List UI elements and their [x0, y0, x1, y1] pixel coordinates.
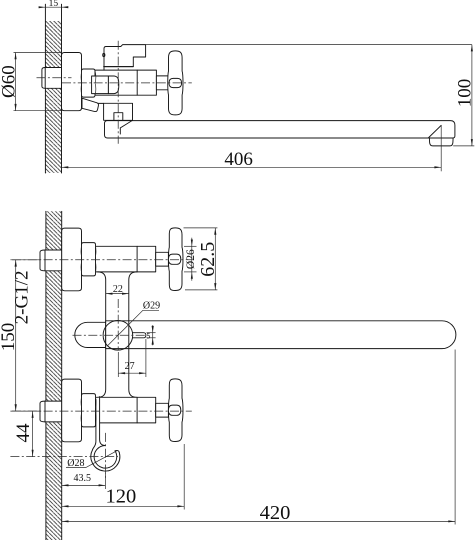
dimension 100 (height): [123, 44, 472, 46]
valve axis centerline (top view): [62, 82, 192, 84]
leader ø28: [66, 451, 117, 468]
nut facets (top view): [81, 72, 96, 95]
svg-text:150: 150: [0, 323, 19, 352]
wall section hatch (front view): [46, 211, 62, 540]
dimension 120: [183, 444, 185, 510]
dimension 406 (spout reach): [62, 166, 442, 168]
spout centerline (front view): [73, 334, 150, 336]
upper inlet pipe (front view): [40, 250, 62, 271]
eccentric inlet pipe (top view): [42, 68, 62, 89]
svg-text:43.5: 43.5: [73, 473, 91, 484]
dimension 15 (wall thickness): [39, 6, 67, 8]
valve cylinder and stem (top view): [95, 70, 156, 95]
hook horizontal centerline (front view): [10, 456, 118, 458]
hook vertical centerline (front view): [104, 433, 106, 480]
spout inner edge right (top view): [428, 125, 441, 138]
handle hub (top view): [169, 78, 182, 87]
dimension 420: [454, 350, 456, 525]
svg-text:406: 406: [224, 149, 253, 170]
dimension 22 (tube width): [106, 293, 129, 295]
svg-text:44: 44: [13, 423, 34, 443]
svg-text:2-G1/2: 2-G1/2: [12, 270, 33, 324]
dimension ø60 (flange): [14, 52, 62, 54]
pipe cap edge (top view): [44, 68, 46, 89]
cross handle (top view): [168, 51, 183, 115]
dimension 62.5 (handle): [184, 227, 218, 229]
bell tab (top view): [114, 113, 123, 121]
svg-text:15: 15: [49, 0, 59, 9]
handle neck (top view): [156, 76, 168, 90]
svg-text:Ø26: Ø26: [185, 249, 197, 269]
lower valve centerline (front view): [12, 410, 192, 412]
dimension 150: [10, 259, 40, 261]
svg-text:Ø60: Ø60: [0, 65, 19, 98]
svg-text:120: 120: [106, 486, 137, 508]
hex nut (top view): [82, 69, 96, 97]
upper valve centerline (front view): [12, 259, 192, 261]
spout pivot centerline (top view): [117, 41, 119, 144]
dimension 43.5: [104, 473, 106, 489]
pivot vertical centerline (front view): [117, 299, 119, 350]
leader ø29: [107, 310, 159, 346]
svg-text:22: 22: [113, 284, 123, 295]
svg-text:Ø28: Ø28: [67, 458, 84, 469]
spout nozzle (top view): [429, 138, 453, 146]
shower hose hook ring ø28 (front view): [91, 450, 120, 471]
svg-text:100: 100: [454, 79, 475, 108]
upper valve assembly (front view): [62, 228, 82, 291]
body tube (front view): [98, 272, 106, 398]
wall edges (top view): [44, 4, 46, 173]
svg-text:62.5: 62.5: [197, 242, 219, 277]
svg-text:420: 420: [260, 502, 291, 524]
pipe centerline (top view): [37, 77, 72, 79]
diverter lever (top view): [82, 98, 99, 111]
cylinder/stem divider (top view): [136, 70, 138, 95]
wall section hatch (top view): [45, 21, 61, 173]
pivot housing bulge (top view): [108, 76, 118, 94]
cartridge sleeve (top view): [92, 76, 109, 94]
lower inlet pipe (front view): [40, 401, 62, 422]
spout bell block (top view): [104, 103, 133, 120]
spout tube (top view): [105, 121, 455, 138]
lower valve assembly (front view): [62, 379, 82, 442]
bonnet block (top view): [104, 45, 146, 71]
spout left cap (front view): [75, 322, 106, 347]
pivot circle ø29 (front view): [103, 321, 133, 351]
pivot slot (front view): [133, 333, 146, 338]
dimension ø26 (stem): [184, 245, 197, 247]
spout inner edge left (top view): [120, 120, 132, 134]
wall edges (front view): [45, 211, 47, 540]
dimension 44: [32, 411, 34, 457]
svg-text:Ø29: Ø29: [143, 300, 160, 311]
svg-text:5: 5: [146, 331, 150, 340]
flange escutcheon (top view): [62, 53, 82, 111]
dimension 27: [117, 352, 119, 377]
set screw (top view): [103, 53, 105, 56]
spout tube (front view): [106, 321, 456, 349]
svg-text:27: 27: [125, 361, 135, 372]
dimension 5 (slot): [147, 332, 156, 334]
shower hose hook arm (front view): [96, 397, 99, 442]
